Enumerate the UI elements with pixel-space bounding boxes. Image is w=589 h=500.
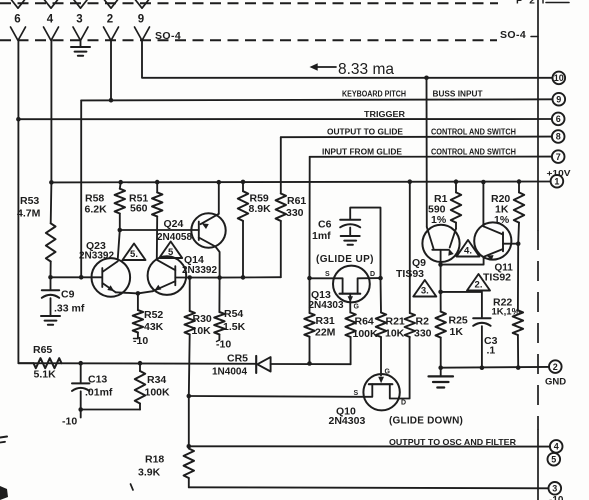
label 1K (R20): [495, 204, 509, 216]
svg-text:(GLIDE DOWN): (GLIDE DOWN): [389, 416, 463, 427]
wire input-from-glide down to Q13 source: [309, 157, 311, 278]
board edge (right, solid bottom): [537, 430, 539, 500]
svg-text:4: 4: [47, 14, 54, 26]
label 2N4058: [157, 232, 192, 243]
label .33 mf: [54, 303, 85, 315]
label R25: [449, 315, 468, 327]
label D (Q10): [401, 400, 406, 407]
capacitor C9: [42, 277, 59, 315]
resistor R65: [34, 358, 62, 368]
label 1N4004: [212, 367, 247, 378]
wire pin6 down to bus: [18, 41, 33, 364]
terminal 1: [551, 175, 564, 188]
resistor R30: [185, 278, 195, 397]
bus wire right segment: [271, 361, 351, 366]
wire Q14 base line: [175, 275, 219, 280]
svg-text:2N4058: 2N4058: [157, 232, 192, 243]
connector SO-4 socket dashed line: [0, 39, 497, 41]
svg-text:D: D: [401, 400, 406, 407]
transistor Q23: [92, 258, 131, 297]
svg-text:100K: 100K: [353, 328, 379, 340]
label TIS92: [483, 272, 511, 284]
svg-text:R34: R34: [147, 374, 166, 386]
wire output-to-glide down to R61: [280, 137, 282, 193]
terminal 5: [548, 453, 561, 466]
plug pin 3: [74, 0, 87, 8]
node R25 bottom / ground: [438, 365, 443, 370]
node Q11 base / R20 / R22: [516, 241, 521, 246]
wire C13 bottom to R34: [81, 409, 140, 411]
stray pen mark near R18: [131, 484, 134, 490]
label S (Q10): [354, 390, 359, 397]
label Q9: [412, 257, 426, 269]
node C13 top: [78, 361, 83, 366]
svg-text:43K: 43K: [144, 321, 164, 333]
svg-text:10: 10: [554, 73, 564, 83]
svg-text:R54: R54: [224, 308, 243, 320]
svg-text:4: 4: [554, 442, 559, 452]
label 1% (R20): [494, 214, 510, 226]
plug pin 2: [105, 0, 118, 8]
svg-text:CONTROL AND SWITCH: CONTROL AND SWITCH: [431, 127, 516, 137]
label (GLIDE DOWN): [389, 416, 463, 427]
resistor R51: [152, 180, 162, 260]
label 3.9K: [138, 467, 161, 479]
resistor R54: [214, 278, 224, 340]
socket pin 4: [44, 27, 59, 41]
input-from-glide line: [310, 156, 552, 158]
resistor R59: [238, 180, 248, 278]
svg-text:9: 9: [138, 14, 144, 26]
terminal 6: [552, 113, 565, 126]
svg-text:5.1K: 5.1K: [34, 369, 57, 381]
label Q23: [86, 240, 106, 252]
label OUTPUT TO GLIDE: [327, 127, 403, 137]
label .1: [487, 345, 496, 357]
resistor R20: [514, 179, 524, 243]
svg-text:.01mf: .01mf: [85, 387, 113, 399]
wire pin9 to 8.33ma line: [142, 41, 552, 78]
label 8.9K: [249, 203, 272, 215]
scan mark bottom-left corner: [0, 486, 8, 500]
ground below C6: [341, 236, 360, 245]
label TIS93: [396, 268, 424, 280]
node R53 / C9 / Q23 base: [48, 275, 53, 280]
svg-text:-10: -10: [549, 495, 564, 500]
node C3 bottom: [480, 365, 485, 370]
pin number 9: [138, 14, 144, 26]
socket pin 3: [73, 27, 88, 41]
resistor R53: [46, 182, 56, 277]
svg-text:OUTPUT TO GLIDE: OUTPUT TO GLIDE: [327, 127, 403, 137]
label GND: [545, 376, 566, 387]
label BUSS INPUT: [433, 89, 484, 99]
label 330: [286, 207, 304, 219]
FET Q13: [310, 266, 381, 313]
label R2: [416, 316, 430, 328]
label R34: [147, 374, 166, 386]
resistor R58: [115, 180, 125, 230]
svg-text:GND: GND: [545, 376, 566, 387]
plug pin 6: [12, 0, 25, 8]
label R65: [33, 344, 52, 356]
label 4.7M: [17, 208, 41, 220]
ground at socket pin 3: [71, 41, 90, 56]
wire keyboard line down to Q23 base: [80, 100, 82, 277]
svg-text:R2: R2: [416, 316, 430, 328]
label R30: [193, 313, 212, 325]
resistor R61: [276, 194, 286, 278]
svg-text:330: 330: [286, 207, 304, 219]
svg-text:7: 7: [556, 152, 561, 162]
wire Q24 base to R58: [120, 229, 199, 231]
label .01mf: [85, 387, 113, 399]
transistor Q14: [148, 256, 187, 295]
resistor R21: [376, 278, 386, 337]
wire Q23 base line: [51, 276, 102, 278]
svg-text:4.7M: 4.7M: [17, 208, 41, 220]
svg-text:8: 8: [556, 132, 561, 142]
svg-text:R64: R64: [355, 316, 374, 328]
wire Q24 emitter to +10V: [217, 180, 222, 214]
svg-text:P 2 I: P 2 I: [516, 0, 546, 7]
transistor Q24: [191, 213, 225, 277]
trigger line: [18, 118, 551, 120]
label 1% (R1): [431, 214, 447, 226]
label 2N3392 (Q23): [79, 251, 114, 262]
resistor R31: [304, 278, 314, 363]
node trigger / pin6: [16, 117, 21, 122]
warning triangle 4: [457, 240, 480, 257]
label Q14: [184, 254, 204, 266]
wire R18 to terminal 3: [189, 487, 549, 488]
label CR5: [227, 353, 248, 365]
label 560: [130, 203, 148, 215]
label 10K (R30): [192, 325, 212, 337]
label 2N4303 (Q13): [309, 300, 344, 311]
label R51: [129, 193, 148, 205]
label C3: [484, 335, 498, 347]
svg-text:560: 560: [130, 203, 148, 215]
node output line: [187, 444, 192, 449]
svg-text:R25: R25: [449, 315, 468, 327]
bus wire left segment: [18, 362, 256, 365]
label -10 (R52): [133, 335, 148, 347]
svg-text:R30: R30: [193, 313, 212, 325]
node R58 / Q24 base: [118, 228, 123, 259]
label OUTPUT TO OSC AND FILTER: [389, 438, 516, 447]
svg-text:3.9K: 3.9K: [138, 467, 161, 479]
resistor R34: [135, 363, 145, 409]
label -10 (C13): [62, 416, 77, 428]
label R58: [85, 193, 104, 205]
label Q13: [311, 289, 331, 301]
svg-text:8.9K: 8.9K: [249, 203, 272, 215]
node C13 bottom: [78, 407, 83, 417]
svg-text:1mf: 1mf: [312, 230, 331, 242]
svg-text:9: 9: [556, 94, 561, 104]
node on 8.33ma line: [424, 76, 429, 81]
label KEYBOARD PITCH: [342, 89, 406, 99]
transistor Q9: [422, 223, 459, 265]
svg-text:TIS92: TIS92: [483, 272, 511, 284]
svg-text:1K,1%: 1K,1%: [492, 307, 521, 318]
svg-text:INPUT FROM GLIDE: INPUT FROM GLIDE: [322, 146, 402, 156]
resistor R22: [513, 244, 523, 368]
label G (Q10): [385, 369, 391, 376]
label TRIGGER: [364, 109, 406, 119]
label S (Q13): [325, 271, 330, 278]
svg-text:R31: R31: [316, 315, 335, 327]
svg-text:C6: C6: [318, 219, 332, 231]
wire pin2 corner: [109, 41, 114, 103]
label C13: [88, 374, 107, 386]
svg-text:5: 5: [551, 454, 556, 464]
warning triangle 2: [467, 274, 490, 291]
label 100K (R34): [145, 387, 171, 399]
label R53: [20, 195, 39, 207]
svg-text:OUTPUT TO OSC AND FILTER: OUTPUT TO OSC AND FILTER: [389, 438, 516, 447]
svg-text:.1: .1: [487, 345, 496, 357]
label -10 (R54): [216, 339, 231, 351]
node Q9 base lower / R25 / C3: [438, 290, 443, 295]
terminal 3: [549, 482, 562, 495]
node Q13 drain / C6 / R21: [378, 276, 383, 281]
label R20: [491, 193, 510, 205]
capacitor C6: [340, 220, 360, 236]
label R31: [316, 315, 335, 327]
svg-text:10K: 10K: [192, 325, 212, 337]
ground below C9: [41, 316, 60, 325]
svg-text:S: S: [325, 271, 330, 278]
keyboard pitch buss line: [81, 99, 552, 100]
label 1K (R25): [450, 326, 464, 338]
pin number 2: [107, 14, 113, 26]
svg-text:6: 6: [556, 114, 561, 124]
label +10V: [547, 168, 571, 178]
svg-text:TRIGGER: TRIGGER: [364, 109, 406, 119]
pin number 6: [14, 14, 20, 26]
board edge (right, dashed middle): [537, 230, 539, 430]
resistor R64: [345, 313, 355, 365]
current arrow 8.33 ma: [310, 61, 395, 78]
svg-text:2N4303: 2N4303: [329, 415, 366, 427]
label R52: [144, 309, 163, 321]
label R18: [145, 454, 164, 466]
svg-text:3: 3: [552, 484, 557, 494]
svg-text:R18: R18: [145, 454, 164, 466]
scan mark left edge (mid-bottom): [0, 437, 7, 443]
wire to C3 top: [441, 292, 482, 317]
svg-text:BUSS INPUT: BUSS INPUT: [433, 89, 484, 99]
label 330 (R2): [414, 328, 432, 340]
label SO-4 (right): [500, 29, 538, 41]
label 1K,1% (R22): [492, 307, 521, 318]
wire Q9 base down: [440, 265, 442, 292]
+10V rail: [51, 181, 550, 184]
svg-text:8.33 ma: 8.33 ma: [338, 61, 394, 78]
node Q14 base / Q24 collector: [217, 275, 222, 280]
node R34 top: [138, 361, 143, 366]
diode CR5: [256, 356, 270, 373]
svg-text:1.5K: 1.5K: [223, 321, 246, 333]
svg-text:6.2K: 6.2K: [85, 204, 108, 216]
output-to-glide line: [281, 136, 552, 139]
label R61: [287, 195, 306, 207]
ground line to terminal 2: [441, 366, 549, 369]
node Q9 base upper: [438, 262, 443, 267]
svg-text:2N4303: 2N4303: [309, 300, 344, 311]
svg-text:SO-4: SO-4: [155, 30, 181, 42]
svg-text:6: 6: [14, 14, 20, 26]
svg-text:G: G: [385, 369, 391, 376]
svg-text:R61: R61: [287, 195, 306, 207]
wire 8.33 node down to Q9 collector: [426, 78, 428, 227]
svg-text:3.: 3.: [421, 286, 429, 297]
resistor R1: [451, 179, 461, 222]
label 5.1K: [34, 369, 57, 381]
svg-text:SO-4: SO-4: [500, 29, 526, 41]
terminal 8: [552, 130, 565, 143]
terminal 2: [549, 360, 562, 373]
label Q24: [164, 218, 184, 230]
terminal 4: [550, 440, 563, 453]
svg-text:2N3392: 2N3392: [79, 251, 114, 262]
svg-text:1N4004: 1N4004: [212, 367, 247, 378]
wire Q10 drain to R2: [400, 337, 410, 399]
svg-text:R53: R53: [20, 195, 39, 207]
svg-text:22M: 22M: [315, 327, 336, 339]
svg-text:2N3392: 2N3392: [182, 265, 217, 276]
svg-text:R52: R52: [144, 309, 163, 321]
warning triangle 5 (right): [159, 242, 182, 259]
transistor Q11: [474, 222, 518, 260]
svg-text:3: 3: [76, 14, 82, 26]
svg-text:2: 2: [107, 14, 113, 26]
svg-text:TIS93: TIS93: [396, 268, 424, 280]
terminal 7: [552, 150, 565, 163]
board edge (right, solid top): [537, 0, 539, 230]
capacitor C3: [473, 318, 490, 367]
plug pin 4: [45, 0, 58, 8]
svg-text:R21: R21: [386, 316, 405, 328]
node Q10 source / R30: [187, 394, 192, 399]
label SO-4 (left): [155, 30, 181, 42]
resistor R25: [436, 292, 446, 368]
svg-text:C13: C13: [88, 374, 107, 386]
label 2N4303 (Q10): [329, 415, 366, 427]
label C9: [61, 289, 75, 301]
svg-text:(GLIDE UP): (GLIDE UP): [316, 254, 374, 265]
wire Q9 base to Q11 emitter: [441, 257, 484, 265]
svg-text:G: G: [354, 304, 360, 311]
svg-text:C9: C9: [61, 289, 75, 301]
wire Q11 collector to +10V: [481, 180, 486, 227]
capacitor C6 bracket: [350, 208, 380, 279]
resistor R52: [133, 293, 143, 338]
svg-text:2: 2: [553, 362, 558, 372]
label INPUT FROM GLIDE: [322, 146, 402, 156]
svg-text:CR5: CR5: [227, 353, 248, 365]
connector P-2 label (cut off at top): [516, 0, 569, 7]
socket pin 6: [11, 27, 26, 41]
label C6: [318, 219, 332, 231]
label CONTROL AND SWITCH (upper): [431, 127, 516, 137]
label Q11: [495, 263, 514, 274]
svg-text:10K: 10K: [385, 328, 405, 340]
ground symbol at R25: [429, 368, 454, 388]
terminal 9: [553, 93, 566, 106]
label 22M: [315, 327, 336, 339]
svg-text:5: 5: [168, 247, 174, 258]
resistor R2: [405, 179, 415, 337]
label 6.2K: [85, 204, 108, 216]
svg-text:R65: R65: [33, 344, 52, 356]
label 100K (R64): [353, 328, 379, 340]
node pin4 / +10V rail: [49, 180, 54, 185]
terminal 10: [553, 72, 566, 85]
svg-text:100K: 100K: [145, 387, 171, 399]
wire R30 node down: [188, 396, 190, 446]
FET Q10: [363, 374, 399, 410]
label R64: [355, 316, 374, 328]
wire node to glide corner: [220, 275, 281, 280]
svg-text:2.: 2.: [475, 280, 483, 291]
wire R21 to Q10 gate: [378, 337, 384, 383]
output to osc line: [189, 445, 550, 447]
warning triangle 3: [413, 280, 436, 297]
label R59: [250, 193, 269, 205]
connector P-2 plug dashed line: [0, 2, 498, 4]
svg-text:330: 330: [414, 328, 432, 340]
label G (Q13): [354, 304, 360, 311]
label -10 (terminal 3, cut off): [549, 495, 564, 500]
label R21: [386, 316, 405, 328]
label 43K: [144, 321, 164, 333]
wire pin4 down: [50, 41, 52, 183]
label CONTROL AND SWITCH (lower): [431, 146, 516, 156]
label 10K (R21): [385, 328, 405, 340]
node Q23 base / keyboard wire: [79, 275, 84, 280]
svg-text:.33 mf: .33 mf: [54, 303, 85, 315]
label R22: [493, 297, 512, 309]
label (GLIDE UP): [316, 254, 374, 265]
svg-text:4.: 4.: [464, 246, 472, 257]
label D (Q13): [370, 271, 375, 278]
svg-text:KEYBOARD PITCH: KEYBOARD PITCH: [342, 89, 406, 99]
label 590: [428, 204, 446, 216]
label R1: [434, 193, 448, 205]
svg-text:1K: 1K: [450, 326, 464, 338]
socket pin 9: [135, 27, 150, 41]
label Q10: [336, 406, 356, 418]
svg-text:Q24: Q24: [164, 218, 184, 230]
node R22 bottom: [516, 365, 521, 370]
label R54: [224, 308, 243, 320]
node Q13 source: [307, 276, 312, 281]
resistor R18: [184, 449, 194, 488]
pin number 3: [76, 14, 82, 26]
svg-text:5.: 5.: [130, 249, 138, 260]
label 1mf: [312, 230, 331, 242]
emitter node Q23/Q14: [116, 291, 153, 296]
warning triangle 5 (left): [123, 244, 146, 261]
svg-text:CONTROL AND SWITCH: CONTROL AND SWITCH: [431, 146, 516, 156]
plug pin 9: [136, 0, 149, 8]
wire Q10 source line: [189, 395, 364, 398]
svg-text:D: D: [370, 271, 375, 278]
svg-text:1: 1: [554, 176, 559, 186]
